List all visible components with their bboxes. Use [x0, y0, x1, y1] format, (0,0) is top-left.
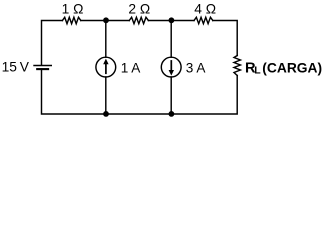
voltage source V1 battery short plate	[37, 68, 48, 70]
junction dot bottom of I1 branch	[103, 111, 109, 117]
resistor R3 4-ohm zigzag	[194, 17, 213, 23]
node B junction dot (top)	[169, 17, 175, 23]
svg-text:1 A: 1 A	[121, 61, 142, 76]
svg-text:3 A: 3 A	[186, 61, 207, 76]
wire current source I2 to bottom wire	[170, 77, 172, 114]
wire top-right corner down to load resistor	[213, 21, 237, 56]
voltage source V1 battery long plate	[34, 65, 51, 67]
svg-text:1 Ω: 1 Ω	[62, 2, 84, 17]
load resistor RL vertical zigzag	[234, 56, 240, 76]
current source I2 circle	[161, 57, 181, 77]
svg-text:(CARGA): (CARGA)	[262, 60, 322, 75]
wire R1 to node A	[81, 20, 129, 22]
resistor R1 1-ohm zigzag	[62, 17, 80, 23]
wire current source I1 to bottom wire	[105, 77, 107, 114]
resistor R2 2-ohm zigzag	[129, 17, 148, 23]
svg-text:2 Ω: 2 Ω	[128, 2, 150, 17]
current source I1 circle	[96, 57, 116, 77]
current source I2 down-arrow	[169, 60, 174, 76]
svg-text:15 V: 15 V	[2, 60, 30, 75]
svg-text:L: L	[254, 65, 261, 77]
wire battery to bottom-left corner	[42, 69, 107, 114]
wire node B down to current source I2	[170, 21, 172, 58]
label RL (CARGA)	[245, 60, 322, 76]
wire RL bottom to bottom-right corner	[171, 76, 237, 115]
wire top-left: left corner to resistor R1	[42, 21, 63, 66]
svg-text:4 Ω: 4 Ω	[194, 2, 216, 17]
junction dot bottom of I2 branch	[169, 111, 175, 117]
wire R2 to node B	[148, 20, 194, 22]
bottom wire between branch dots	[106, 113, 171, 115]
node A junction dot (top)	[103, 17, 109, 23]
wire node A down to current source I1	[105, 21, 107, 58]
current source I1 up-arrow	[103, 59, 108, 75]
